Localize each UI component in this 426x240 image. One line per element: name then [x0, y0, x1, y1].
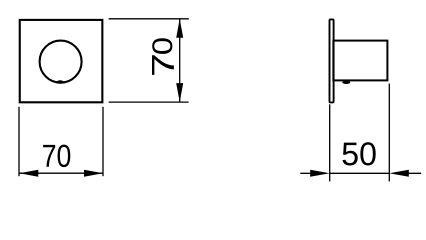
- dimension 70 horizontal: right arrowhead: [84, 170, 103, 177]
- side view: body rectangle: [333, 41, 387, 81]
- front view: small nub at circle bottom: [57, 80, 64, 83]
- dimension 70 vertical: top extension line: [109, 18, 189, 20]
- dimension 70 vertical: bottom arrowhead: [176, 83, 183, 102]
- dimension 70 horizontal: right extension line: [102, 107, 104, 176]
- dimension 50: value label: [343, 142, 376, 165]
- dimension 70 vertical: bottom extension line: [109, 101, 189, 103]
- dimension 50: right extension line: [388, 84, 390, 182]
- dimension 50: right arrowhead (outside, pointing left): [389, 170, 409, 177]
- dimension 70 vertical: value label (rotated): [152, 38, 174, 75]
- dimension 70 horizontal: dimension line: [19, 172, 103, 174]
- dimension 50: left arrowhead (outside, pointing right): [310, 170, 330, 177]
- dimension 50: left tail line: [300, 172, 314, 174]
- front view: square plate outline: [20, 20, 103, 102]
- dimension 70 horizontal: value label: [43, 145, 70, 168]
- dimension 70 horizontal: left extension line: [18, 107, 20, 176]
- side view: thin flange plate: [330, 19, 334, 102]
- dimension 50: dimension line between extension lines: [330, 172, 390, 174]
- dimension 70 horizontal: left arrowhead: [19, 170, 38, 177]
- dimension 50: left extension line: [329, 104, 331, 181]
- dimension 70 vertical: dimension line: [179, 19, 181, 102]
- dimension 70 vertical: top arrowhead: [176, 19, 183, 38]
- front view: circle (knob): [40, 41, 82, 83]
- side view: small nub on bottom line: [342, 81, 350, 84]
- dimension 50: right tail line: [405, 172, 421, 174]
